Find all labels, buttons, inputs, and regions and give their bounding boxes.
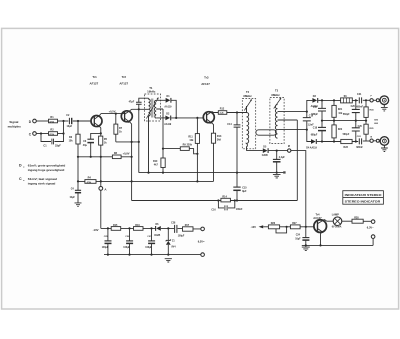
transformer T3 box [270,98,284,144]
node D input terminal [33,119,37,123]
svg-text:D4 AA119: D4 AA119 [306,147,317,150]
svg-text:680nF: 680nF [356,147,363,149]
capacitor C22 series [359,138,361,144]
resistor R1 [49,119,58,123]
svg-text:680μF: 680μF [311,135,318,137]
junction [321,120,323,122]
wire bias line [78,156,132,158]
wire bottom channel [322,141,358,143]
wire Tr1 collector [100,114,101,116]
wire C5 column [139,98,149,172]
wire C2 to Tr1 base [73,120,91,122]
capacitor C2 [68,118,70,124]
svg-text:100μF: 100μF [123,247,130,249]
node C input terminal [33,132,37,136]
junction [100,156,102,158]
transformer T1 box [145,94,161,121]
svg-text:38kHz: 38kHz [243,94,252,98]
junction [162,172,164,174]
resistor R13 [211,133,215,143]
svg-text:R26: R26 [271,222,276,225]
wire supply rail mid [132,120,298,201]
junction [333,140,335,142]
svg-text:4k7: 4k7 [154,164,159,167]
diode D2 [161,117,166,119]
coil T3 [275,105,277,139]
svg-text:T1: T1 [149,86,153,90]
wire R28 to terminal [363,220,371,222]
wire lamp to R28 [342,220,352,222]
junction [321,99,323,101]
junction [365,99,367,101]
svg-text:9V4: 9V4 [171,246,176,249]
svg-text:100μF: 100μF [178,236,185,238]
wire R4 line [78,180,214,182]
ground jack L [381,105,388,111]
svg-text:AC127: AC127 [313,216,322,220]
capacitor C18 column [321,121,323,142]
junction [355,99,357,101]
junction [100,180,102,182]
node D2 row junctions [175,117,177,119]
transistor Tr4 [314,220,327,233]
svg-text:100nF: 100nF [236,209,243,211]
ground jack R [381,145,388,151]
wire Tr4 collector [324,220,333,222]
coil T1 secondary [154,100,156,118]
capacitor C4 [75,189,81,191]
junction [131,180,133,182]
wire R5 to bias line and node A riser [100,145,102,228]
svg-text:8μF: 8μF [242,190,247,193]
svg-text:38kHz: 38kHz [271,93,280,97]
node R7 top [115,113,117,115]
svg-text:C20: C20 [358,126,363,128]
resistor R25 column [365,121,367,141]
wire Tr2 emitter / supply riser column [130,122,132,200]
junction [365,120,367,122]
wire D2 row to Tr3 base [171,117,203,119]
resistor R24 column [365,100,367,120]
capacitor C14 [234,125,241,127]
node supply rail dots [217,199,219,201]
svg-text:C20: C20 [351,106,356,108]
node A [99,187,103,191]
svg-text:INDICATEUR STEREO: INDICATEUR STEREO [345,193,382,197]
junction [305,226,307,228]
junction [305,244,307,246]
svg-text:560pF: 560pF [343,114,350,116]
node 6.3V terminals [371,220,375,224]
svg-text:Tr4: Tr4 [316,213,321,217]
junction [167,254,169,256]
node junction D-row [62,120,64,122]
svg-text:10μF: 10μF [70,197,76,199]
wire R12 to T2 [227,112,247,114]
svg-text:680pF: 680pF [311,114,318,116]
svg-text:R15: R15 [113,224,118,227]
node bias dots [77,156,79,158]
ground chain [165,259,172,262]
svg-text:2,2μF: 2,2μF [279,157,286,159]
resistor R21 column [333,100,335,120]
junction [128,227,130,229]
svg-text:680nF: 680nF [356,107,363,109]
junction [355,140,357,142]
node tap column [162,148,164,150]
svg-text:OA85: OA85 [154,234,161,237]
core T1 [152,99,153,118]
wire emitter rail indicator [302,238,373,245]
wire input C [36,133,48,135]
capacitor C24 column [305,227,307,246]
svg-text:9,2V=: 9,2V= [198,240,205,244]
svg-text:10μF: 10μF [67,125,73,128]
wire mid rail [322,120,366,122]
junction [234,199,236,201]
diode D1 [161,99,166,101]
svg-text:R17: R17 [185,224,190,227]
wire D1 to D2 row [171,100,176,118]
jack left-channel [376,99,379,102]
wire R13 to R4 line [213,143,215,181]
capacitor C19 [306,112,308,130]
svg-text:+0,5V: +0,5V [109,109,116,113]
ground below C13 [273,174,281,178]
node R4 line dots [77,180,79,182]
svg-text:Tr1: Tr1 [92,75,97,79]
wire R27 to Tr4 base [300,226,314,228]
wire D5 to terminal M [269,150,288,152]
capacitor C17 column [321,100,323,120]
node supply output terminal [201,227,205,231]
wire M to indicator column [291,151,306,227]
diode D4 [307,130,311,142]
svg-text:100μF: 100μF [145,247,152,249]
junction [236,199,238,201]
svg-text:61mV; laat signaal: 61mV; laat signaal [28,177,57,181]
junction [276,172,278,174]
wire Tr1 emitter [100,127,101,136]
svg-text:OA85: OA85 [262,154,269,157]
diode D3 [307,100,313,111]
capacitor C25 column [107,228,109,254]
node terminal M [288,149,291,152]
capacitor C3 [87,138,94,140]
wire Tr4 emitter [321,232,323,246]
node feedback join [196,153,198,155]
junction [333,99,335,101]
capacitor C15 [233,186,240,188]
resistor R15 [111,227,121,231]
wire Tr1-Tr2 coupling +0.5V [101,113,125,115]
svg-text:R14: R14 [222,196,227,199]
wire Tr2 collector [130,109,149,110]
arrow T2 tuning [244,100,251,111]
svg-text:ingang sterk signaal: ingang sterk signaal [28,182,56,186]
resistor R5 emitter [99,136,103,145]
junction [306,129,308,131]
junction [150,227,152,229]
svg-text:AA119: AA119 [164,123,172,126]
svg-text:40μ: 40μ [83,144,88,147]
coil T2 [247,106,249,151]
node junction after R2 [62,132,64,134]
arrow T1 tuning [146,98,158,118]
svg-text:STEREO INDICATOR: STEREO INDICATOR [345,200,381,204]
wire top channel [322,99,358,101]
node C5/collector crossing [138,108,140,110]
jack right-channel [376,139,379,142]
wire R11 column [196,118,198,181]
resistor R9 [180,147,189,151]
ground indicator [302,247,310,251]
resistor R4 [85,180,96,184]
junction [236,172,238,174]
wire T1 secondary taps [156,100,163,118]
wire to jack L [373,99,376,101]
svg-text:33pF: 33pF [55,145,61,148]
svg-text:15k: 15k [69,139,74,142]
svg-text:-10V: -10V [251,226,257,229]
node terminal F [370,99,373,102]
svg-text:10k: 10k [189,139,194,142]
wire tie rows [63,121,65,134]
junction [321,140,323,142]
capacitor C13 2.2uF column [276,151,278,173]
svg-text:C15: C15 [242,186,247,189]
svg-text:R21: R21 [338,109,343,111]
svg-text:R23: R23 [344,146,349,149]
wire R26 wiper loop [276,227,287,233]
ground below C4 [75,203,82,206]
svg-text:61mV; grote gevoeligheid: 61mV; grote gevoeligheid [28,164,66,168]
resistor R12 [218,111,227,115]
junction [128,254,130,256]
capacitor C5 [136,102,142,104]
svg-text:C17: C17 [313,107,318,109]
node chain dots [107,227,109,229]
junction [131,156,133,158]
transistor Tr1 [91,116,102,127]
node junction base column [77,120,79,122]
svg-text:-10V: -10V [93,228,99,232]
svg-text:C18: C18 [313,128,318,130]
svg-text:R16: R16 [135,224,140,227]
node ground rail end tick [283,171,285,173]
wire R1 to junction [58,120,69,122]
wire emitter line [116,141,139,143]
inductor S6 [341,98,353,103]
capacitor C20b column [355,121,357,142]
node emitter line dots [131,141,133,143]
svg-text:AF127: AF127 [90,81,99,85]
resistor R8 [112,155,121,159]
wire C1 loop [41,134,64,142]
svg-text:M: M [288,145,290,148]
junction [167,227,169,229]
wire chain ground rail [104,254,201,256]
wire T3 taps [278,112,307,130]
capacitor C21 series [359,97,361,103]
node D5 junction [276,150,278,152]
svg-text:Tr3: Tr3 [204,76,209,80]
junction [138,141,140,143]
junction [196,117,198,119]
svg-text:C24: C24 [296,234,301,237]
capacitor C1 [52,139,54,145]
node junction C-row [40,132,42,134]
resistor R14 [221,198,231,202]
junction [107,254,109,256]
svg-text:D: D [19,164,22,168]
wire C3 column [91,133,101,156]
resistor R3 [76,134,80,144]
transistor Tr2 [121,111,132,122]
resistor R10 [161,158,165,168]
svg-text:560pF: 560pF [343,134,350,136]
svg-text:3k9: 3k9 [217,139,222,142]
svg-text:C21: C21 [357,93,362,96]
junction [90,156,92,158]
capacitor C16 loop [218,201,234,208]
diode D5 [247,150,263,152]
svg-text:Tr2: Tr2 [122,75,127,79]
wire C14 column [236,113,238,201]
wire indicator feed arrow [259,225,264,228]
resistor R17 [183,227,194,231]
wire R9 branch [163,149,197,154]
svg-text:6,3V~: 6,3V~ [367,226,374,230]
capacitor C20a column [355,100,357,120]
svg-text:100μF: 100μF [102,247,109,249]
svg-text:multiplex: multiplex [8,125,22,129]
wire supply chain rail [101,227,201,230]
node emitter column dots [100,132,102,134]
svg-text:R28: R28 [354,217,359,220]
resistor R2 [49,132,58,136]
svg-text:LAMP: LAMP [332,214,339,217]
wire ground rail [139,172,285,174]
resistor R27 [290,225,300,229]
junction [333,120,335,122]
junction [286,226,288,228]
junction [355,120,357,122]
resistor R26 [268,225,279,229]
svg-text:47pF: 47pF [129,100,135,103]
junction [319,244,321,246]
svg-text:R27: R27 [292,222,297,225]
resistor R16 [134,227,144,231]
label box stereo indicator [343,191,384,205]
wire T1 tap column [162,109,164,173]
zener Z1 [167,228,169,240]
wire R7 column [115,114,117,142]
svg-text:220k: 220k [187,144,193,147]
wire to jack R [373,140,376,142]
junction [150,254,152,256]
resistor R23 [341,139,352,143]
capacitor C27 column [151,228,153,254]
node T3 tap dots [306,111,308,113]
coil T1 primary [149,98,151,172]
resistor R7 [114,124,118,134]
node C14 top [236,111,238,113]
svg-text:R22: R22 [338,129,343,131]
node terminal B [370,139,373,142]
lamp [333,217,342,226]
node ground rail dots [147,172,149,174]
wire Tr3 emitter [212,123,214,133]
svg-text:+0,9V: +0,9V [123,152,130,156]
svg-text:AF127: AF127 [119,81,128,85]
svg-text:C28: C28 [171,223,176,225]
junction [196,180,198,182]
wire input D [36,120,48,122]
svg-text:C14: C14 [227,123,232,126]
transformer T2 box [242,99,255,149]
svg-text:C: C [19,177,22,181]
svg-text:ingang hoge gevoeligheid: ingang hoge gevoeligheid [28,168,65,172]
svg-text:10μF: 10μF [295,239,301,241]
resistor R28 [352,219,363,223]
wire C4 column [77,144,79,203]
svg-text:AA119: AA119 [164,106,172,109]
node ground terminal [201,253,205,257]
resistor R22 column [333,121,335,142]
resistor R11 [195,134,199,144]
capacitor C26 column [129,228,131,254]
wire R3 column [77,121,79,134]
svg-text:6V 50mA: 6V 50mA [332,226,342,229]
transistor Tr3 [203,112,214,123]
svg-text:C16: C16 [211,210,216,212]
wire R2 to junction [58,133,64,135]
coil coupling loop T2-T3 [256,130,276,135]
svg-text:Signal: Signal [9,120,18,124]
svg-text:19kHz: 19kHz [147,90,156,94]
svg-text:1,5nF: 1,5nF [308,124,315,126]
svg-text:R12: R12 [220,108,225,111]
svg-text:AF127: AF127 [201,82,210,86]
arrow T3 tuning [274,99,281,109]
wire Tr3 collector [212,112,218,113]
diode D6 [155,226,157,231]
capacitor C28 series [175,225,177,233]
